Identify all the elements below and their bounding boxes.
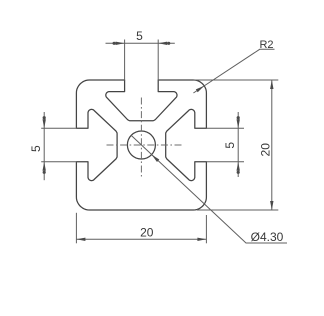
svg-text:R2: R2 (259, 39, 273, 51)
dimension 5 (top): arrowheads (113, 42, 171, 45)
R2 leader arrowhead (196, 86, 205, 92)
dia 4.30 hole leader line (131, 135, 287, 243)
dimension 5 (right): arrowheads (237, 116, 240, 174)
R2 radius leader line (193, 49, 274, 93)
svg-text:5: 5 (29, 145, 43, 152)
vertical centerline (140, 98, 142, 177)
dimension 20 (bottom): arrowheads (76, 238, 206, 241)
horizontal centerline (107, 144, 185, 146)
dimension 20 (bottom width): extension lines (76, 213, 206, 244)
dimension 5 (right slot opening): extension lines (206, 128, 244, 162)
svg-text:5: 5 (136, 29, 143, 43)
svg-text:20: 20 (140, 226, 154, 240)
extrusion profile outline (76, 80, 206, 210)
dimension 20 (right): dimension line (271, 80, 273, 210)
dimension 20 (bottom): dimension line (76, 238, 206, 240)
dimension 20 (right): arrowheads (270, 80, 273, 210)
dimension 5 (top): dimension line (106, 42, 175, 44)
dimension 5 (left): arrowheads (43, 116, 46, 174)
dimension 5 (left): dimension line (43, 112, 45, 180)
svg-text:5: 5 (223, 142, 237, 149)
dimension 5 (top slot opening): extension lines (125, 40, 159, 81)
svg-text:20: 20 (258, 143, 272, 157)
center hole (dia 4.30) (127, 131, 155, 159)
dimension 5 (left slot opening): extension lines (41, 128, 77, 162)
dia 4.30 leader arrowhead (152, 155, 160, 162)
dimension 5 (right): dimension line (237, 112, 239, 177)
dimension 20 (right side height): extension lines (194, 80, 279, 210)
svg-text:Ø4.30: Ø4.30 (251, 230, 284, 244)
